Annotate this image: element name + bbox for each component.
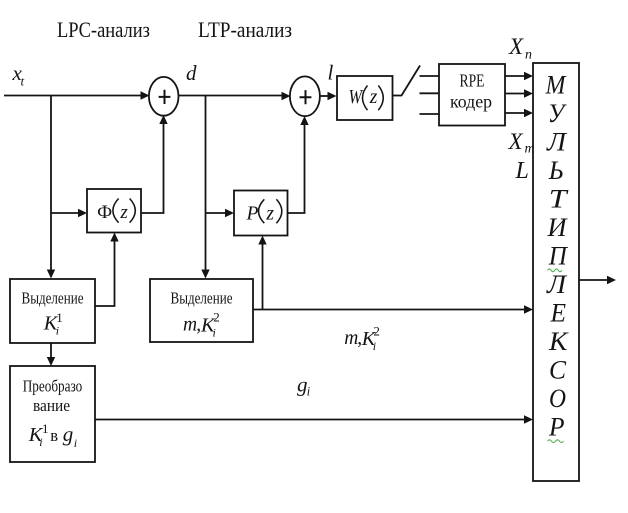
wire branch up from mK2 line to P(z) xyxy=(262,244,264,310)
block text P(z) xyxy=(246,199,282,224)
svg-text:2: 2 xyxy=(373,324,380,339)
block text multiplexer letters xyxy=(545,71,570,442)
svg-text:Л: Л xyxy=(546,128,568,157)
arrowhead mK2 line into mux xyxy=(524,305,533,314)
svg-text:вание: вание xyxy=(33,396,70,415)
svg-text:z: z xyxy=(265,204,274,225)
sum node S2 xyxy=(290,76,320,116)
wire K1 block down to transform block xyxy=(50,343,52,359)
svg-text:m: m xyxy=(183,315,197,336)
svg-text:i: i xyxy=(213,326,216,340)
svg-text:С: С xyxy=(549,356,567,385)
svg-text:i: i xyxy=(39,435,42,449)
arrowhead into sum2 xyxy=(282,92,291,101)
svg-text:i: i xyxy=(56,324,59,338)
wire Phi(z) output feedback to sum1 xyxy=(142,124,164,214)
block P(z) xyxy=(234,191,288,236)
svg-text:W: W xyxy=(349,87,364,108)
svg-text:Выделение: Выделение xyxy=(171,289,233,308)
block text Phi(z) xyxy=(97,199,135,224)
arrowhead branch into P(z) bottom xyxy=(258,236,266,245)
svg-text:m: m xyxy=(525,142,535,157)
svg-text:i: i xyxy=(307,384,311,399)
arrowhead g_i line into mux xyxy=(524,415,533,424)
arrowhead RPE to mux 2 xyxy=(524,89,533,98)
wire multiplexer output xyxy=(579,279,608,281)
svg-text:1: 1 xyxy=(42,421,49,436)
wire stub 1 into RPE xyxy=(420,75,440,77)
svg-text:RPE: RPE xyxy=(460,71,485,91)
svg-text:Выделение: Выделение xyxy=(22,289,84,308)
wire P(z) output feedback to sum2 xyxy=(288,125,305,214)
node label x_t xyxy=(12,61,25,89)
block Vydelenie mK2 xyxy=(150,279,253,342)
svg-text:в: в xyxy=(50,426,58,445)
wire RPE to mux 3 xyxy=(505,112,525,114)
svg-text:d: d xyxy=(186,61,197,85)
svg-text:z: z xyxy=(369,87,378,108)
block RPE coder xyxy=(439,64,505,126)
svg-text:z: z xyxy=(119,202,128,223)
svg-text:Е: Е xyxy=(549,299,566,328)
svg-text:m: m xyxy=(344,328,358,349)
svg-text:l: l xyxy=(328,61,334,85)
arrowhead into sum1 xyxy=(141,91,150,100)
svg-text:Ь: Ь xyxy=(548,156,564,185)
sum node S1 xyxy=(149,77,179,116)
block text W(z) xyxy=(349,86,384,111)
wire label g_i xyxy=(297,373,311,399)
wire stub 3 into RPE xyxy=(420,113,440,115)
wire stub 2 into RPE xyxy=(420,92,440,94)
svg-text:g: g xyxy=(63,422,74,446)
arrowhead into transform block top xyxy=(47,357,55,366)
svg-text:L: L xyxy=(515,158,529,184)
svg-text:P: P xyxy=(246,204,259,225)
block text Preobrazovanie xyxy=(23,376,83,450)
arrowhead into Phi(z) left xyxy=(78,209,87,217)
arrowhead K1 feedback into Phi(z) bottom xyxy=(110,233,118,242)
arrowhead into K1 block top xyxy=(47,270,55,279)
svg-text:П: П xyxy=(548,242,569,271)
wire mK2 block to multiplexer xyxy=(253,309,525,311)
arrowhead P feedback into sum2 bottom xyxy=(300,116,308,125)
spellcheck squiggle under P letter xyxy=(548,269,562,272)
block Phi(z) xyxy=(87,189,141,233)
label X_m xyxy=(508,129,535,157)
svg-text:М: М xyxy=(545,71,567,100)
wire RPE to mux 2 xyxy=(505,93,525,95)
arrowhead into W(z) xyxy=(328,92,337,101)
wire into P(z) left xyxy=(206,212,227,214)
block text RPE coder xyxy=(450,71,492,112)
svg-text:X: X xyxy=(508,129,524,154)
svg-text:Ф: Ф xyxy=(97,202,112,223)
wire transform block to multiplexer (g_i) xyxy=(95,419,525,421)
sum1 plus sign xyxy=(159,90,171,104)
arrowhead mux output xyxy=(607,276,616,285)
spellcheck squiggle under R letter xyxy=(548,440,564,443)
svg-text:LPC-анализ: LPC-анализ xyxy=(57,17,150,42)
wire RPE to mux 1 xyxy=(505,75,525,77)
svg-text:i: i xyxy=(373,339,376,353)
label X_n xyxy=(508,34,532,63)
block Preobrazovanie xyxy=(10,366,95,462)
wire K1 block feedback up to Phi(z) xyxy=(95,241,115,306)
svg-text:X: X xyxy=(508,34,524,59)
svg-text:LTP-анализ: LTP-анализ xyxy=(198,17,292,42)
wire sum2 to W(z) xyxy=(319,95,330,97)
wire branch down at node x=51 xyxy=(50,96,52,272)
svg-text:i: i xyxy=(74,436,77,450)
wire label mK2 xyxy=(344,324,380,354)
wire branch down at node d x=205.5 xyxy=(205,96,207,272)
arrowhead RPE to mux 1 xyxy=(524,72,533,81)
wire W(z) to switch xyxy=(393,95,403,97)
svg-text:Л: Л xyxy=(546,270,568,299)
svg-text:Преобразо: Преобразо xyxy=(23,376,83,395)
arrowhead into P(z) left xyxy=(225,209,234,217)
svg-text:И: И xyxy=(546,213,567,242)
wire sum1 to sum2 (node d) xyxy=(177,95,282,97)
block Vydelenie K1 xyxy=(10,279,95,343)
block text Vydelenie K1 xyxy=(22,289,84,338)
svg-text:t: t xyxy=(21,74,25,89)
svg-text:Т: Т xyxy=(549,185,569,214)
svg-text:2: 2 xyxy=(213,310,220,325)
svg-text:О: О xyxy=(549,384,566,413)
svg-text:К: К xyxy=(548,327,569,356)
arrowhead Phi feedback into sum1 bottom xyxy=(159,115,167,124)
switch slash xyxy=(402,66,421,96)
arrowhead into mK2 block top xyxy=(201,270,209,279)
block multiplexer xyxy=(533,63,579,481)
svg-text:кодер: кодер xyxy=(450,92,492,112)
block W(z) xyxy=(337,76,393,120)
wire into Phi(z) left xyxy=(51,212,80,214)
arrowhead RPE to mux 3 xyxy=(524,109,533,118)
sum2 plus sign xyxy=(300,90,312,104)
svg-text:n: n xyxy=(525,48,532,63)
block text Vydelenie mK2 xyxy=(171,289,233,340)
svg-text:Р: Р xyxy=(548,413,565,442)
wire x_t input xyxy=(4,95,141,97)
